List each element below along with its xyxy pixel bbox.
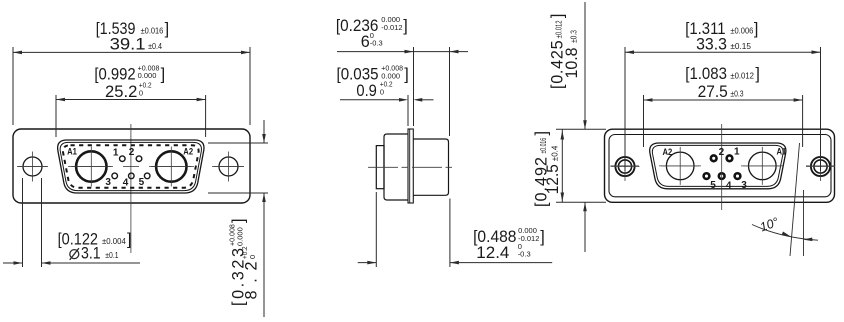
svg-text:]: ] [165, 20, 170, 38]
svg-text:±0.15: ±0.15 [730, 42, 751, 51]
svg-text:0: 0 [248, 255, 257, 259]
svg-text:1: 1 [734, 147, 740, 158]
svg-text:]: ] [404, 66, 409, 84]
svg-text:12.5: 12.5 [544, 164, 562, 194]
svg-text:39.1: 39.1 [110, 36, 146, 54]
svg-text:]: ] [230, 219, 248, 224]
svg-text:0: 0 [139, 89, 143, 98]
svg-text:]: ] [755, 65, 760, 83]
svg-text:5: 5 [710, 180, 716, 191]
svg-text:3: 3 [105, 177, 111, 188]
svg-text:]: ] [127, 231, 132, 249]
svg-text:±0.4: ±0.4 [148, 42, 162, 51]
svg-text:27.5: 27.5 [698, 83, 728, 101]
svg-text:A2: A2 [663, 147, 673, 157]
svg-text:0.000: 0.000 [138, 71, 157, 80]
svg-text:[0.992: [0.992 [94, 65, 135, 83]
svg-text:5: 5 [139, 177, 145, 188]
svg-text:]: ] [754, 20, 759, 38]
svg-text:-0.012: -0.012 [381, 23, 402, 32]
svg-text:±0.1: ±0.1 [105, 251, 119, 260]
svg-text:[1.083: [1.083 [685, 65, 727, 83]
svg-text:0.9: 0.9 [356, 82, 377, 100]
svg-text:2: 2 [129, 147, 135, 158]
svg-text:±0.3: ±0.3 [730, 89, 744, 98]
svg-text:±0.006: ±0.006 [730, 26, 753, 35]
svg-text:±0.016: ±0.016 [141, 26, 164, 35]
svg-text:]: ] [540, 228, 545, 246]
svg-text:3.1: 3.1 [81, 245, 101, 263]
svg-text:8.2: 8.2 [242, 262, 260, 300]
svg-text:±0.012: ±0.012 [730, 71, 754, 80]
svg-text:]: ] [533, 131, 551, 136]
svg-text:A1: A1 [67, 147, 77, 157]
svg-text:±0.012: ±0.012 [555, 20, 564, 38]
svg-text:4: 4 [726, 180, 732, 191]
svg-text:±0.004: ±0.004 [102, 237, 126, 246]
svg-text:±0.016: ±0.016 [539, 138, 548, 154]
svg-text:33.3: 33.3 [696, 36, 727, 54]
svg-text:-0.3: -0.3 [370, 39, 383, 48]
svg-text:0: 0 [380, 88, 384, 97]
svg-text:0.000: 0.000 [235, 227, 244, 246]
svg-text:10.8: 10.8 [563, 48, 581, 79]
svg-text:-0.3: -0.3 [518, 250, 531, 259]
svg-text:1: 1 [113, 147, 119, 158]
svg-text:3: 3 [741, 180, 747, 191]
svg-text:]: ] [161, 65, 166, 83]
svg-text:A2: A2 [183, 147, 193, 157]
svg-text:[0.035: [0.035 [337, 66, 379, 84]
svg-text:±0.3: ±0.3 [570, 30, 579, 43]
svg-text:±0.4: ±0.4 [550, 145, 559, 161]
svg-text:12.4: 12.4 [476, 244, 509, 262]
svg-text:6: 6 [361, 33, 370, 51]
svg-text:2: 2 [719, 147, 725, 158]
svg-text:]: ] [548, 14, 566, 19]
svg-text:]: ] [403, 17, 408, 35]
svg-text:4: 4 [123, 177, 129, 188]
svg-text:A1: A1 [777, 147, 787, 157]
svg-text:25.2: 25.2 [105, 83, 137, 101]
